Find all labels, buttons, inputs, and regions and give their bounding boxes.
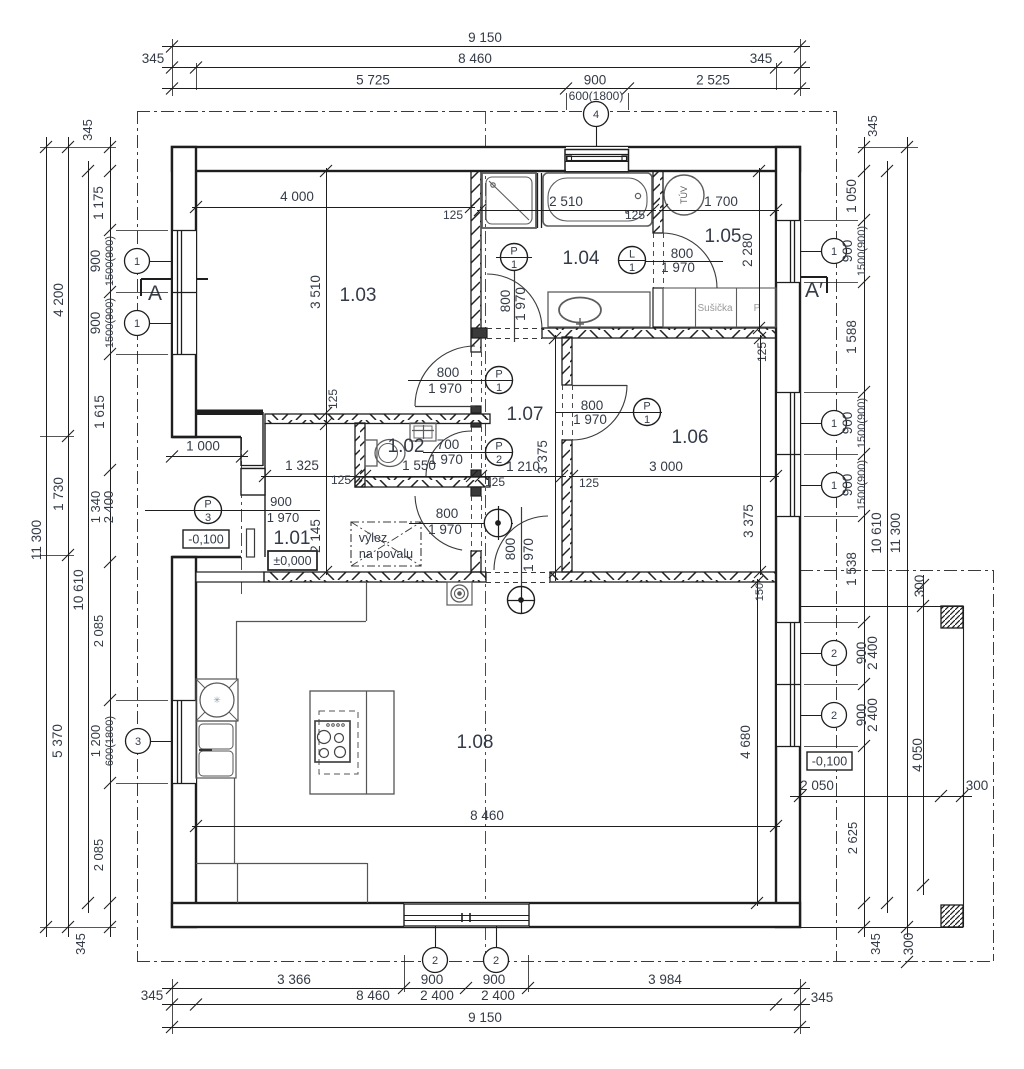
svg-text:2 400: 2 400 <box>101 491 116 524</box>
svg-text:1.04: 1.04 <box>563 248 600 269</box>
svg-text:1 615: 1 615 <box>92 395 107 429</box>
svg-text:P: P <box>495 369 502 381</box>
svg-text:2: 2 <box>493 955 499 967</box>
svg-text:125: 125 <box>755 342 769 362</box>
svg-text:10 610: 10 610 <box>71 569 86 610</box>
svg-text:2 525: 2 525 <box>696 73 730 88</box>
svg-text:1: 1 <box>831 418 837 430</box>
svg-text:345: 345 <box>141 988 164 1003</box>
svg-text:1 588: 1 588 <box>844 320 859 354</box>
svg-text:1: 1 <box>644 414 650 426</box>
svg-text:3 984: 3 984 <box>648 972 682 987</box>
svg-text:1 970: 1 970 <box>428 381 462 396</box>
svg-text:1.05: 1.05 <box>705 226 742 247</box>
svg-text:11 300: 11 300 <box>888 513 903 553</box>
svg-text:2 510: 2 510 <box>549 194 583 209</box>
svg-text:9 150: 9 150 <box>468 1010 502 1025</box>
svg-text:150: 150 <box>754 583 766 601</box>
svg-text:P: P <box>204 499 211 511</box>
svg-text:800: 800 <box>498 290 513 313</box>
svg-text:8 460: 8 460 <box>458 51 492 66</box>
svg-text:125: 125 <box>443 208 463 222</box>
svg-text:L: L <box>629 249 635 261</box>
svg-text:TÚV: TÚV <box>679 186 689 204</box>
svg-text:800: 800 <box>581 398 604 413</box>
svg-text:3: 3 <box>205 512 211 524</box>
svg-text:4 200: 4 200 <box>51 283 66 317</box>
svg-text:1: 1 <box>831 246 837 258</box>
svg-text:125: 125 <box>326 389 340 409</box>
svg-text:900: 900 <box>483 972 506 987</box>
svg-text:1 730: 1 730 <box>51 477 66 511</box>
svg-text:Sušička: Sušička <box>697 303 732 314</box>
svg-text:1500(900): 1500(900) <box>104 298 116 348</box>
svg-text:1500(900): 1500(900) <box>856 398 868 448</box>
svg-text:900: 900 <box>270 494 292 509</box>
svg-text:345: 345 <box>80 119 95 141</box>
svg-text:125: 125 <box>579 476 599 490</box>
svg-text:3 366: 3 366 <box>277 972 311 987</box>
svg-text:1.03: 1.03 <box>340 285 377 306</box>
svg-text:1.06: 1.06 <box>672 427 709 448</box>
svg-text:1500(900): 1500(900) <box>856 460 868 510</box>
svg-text:1: 1 <box>134 318 140 330</box>
svg-text:345: 345 <box>811 990 834 1005</box>
svg-text:1.02: 1.02 <box>388 436 425 457</box>
svg-text:300: 300 <box>966 778 989 793</box>
svg-text:2 400: 2 400 <box>481 988 515 1003</box>
svg-text:10 610: 10 610 <box>869 512 884 553</box>
svg-text:2 085: 2 085 <box>91 615 106 648</box>
svg-text:2 085: 2 085 <box>91 839 106 872</box>
svg-text:P: P <box>510 246 517 258</box>
svg-text:✳: ✳ <box>213 695 221 705</box>
svg-text:300: 300 <box>912 575 927 598</box>
svg-text:2: 2 <box>831 710 837 722</box>
svg-text:-0,100: -0,100 <box>812 755 847 769</box>
svg-text:2 145: 2 145 <box>308 519 323 553</box>
svg-text:1 050: 1 050 <box>844 179 859 213</box>
svg-text:výlez: výlez <box>359 531 387 545</box>
svg-text:1 970: 1 970 <box>573 412 607 427</box>
svg-text:4 050: 4 050 <box>910 738 925 772</box>
svg-text:±0,000: ±0,000 <box>273 554 311 568</box>
svg-text:1 000: 1 000 <box>186 439 220 454</box>
svg-text:1: 1 <box>496 382 502 394</box>
svg-text:900: 900 <box>88 312 103 335</box>
svg-text:1 700: 1 700 <box>704 194 738 209</box>
svg-text:700: 700 <box>437 437 460 452</box>
svg-text:345: 345 <box>142 51 165 66</box>
svg-text:1 325: 1 325 <box>285 458 319 473</box>
svg-text:11 300: 11 300 <box>29 520 44 560</box>
svg-text:1 970: 1 970 <box>513 287 528 321</box>
svg-text:800: 800 <box>671 246 694 261</box>
svg-text:1 970: 1 970 <box>428 522 462 537</box>
svg-text:1500(900): 1500(900) <box>104 236 116 286</box>
svg-text:600(1800): 600(1800) <box>104 716 116 766</box>
svg-text:1 970: 1 970 <box>267 510 300 525</box>
svg-text:345: 345 <box>73 933 88 955</box>
svg-text:800: 800 <box>437 365 460 380</box>
svg-text:345: 345 <box>865 115 880 137</box>
svg-text:na povalu: na povalu <box>359 547 413 561</box>
svg-text:2: 2 <box>831 648 837 660</box>
svg-text:1 175: 1 175 <box>91 186 106 220</box>
svg-text:2 400: 2 400 <box>420 988 454 1003</box>
svg-text:900: 900 <box>840 474 855 497</box>
svg-text:2 400: 2 400 <box>865 636 880 670</box>
svg-text:3 510: 3 510 <box>308 275 323 309</box>
svg-text:800: 800 <box>503 538 518 561</box>
svg-text:4 000: 4 000 <box>280 189 314 204</box>
svg-text:800: 800 <box>436 506 459 521</box>
svg-text:A: A <box>148 282 162 305</box>
svg-text:125: 125 <box>625 208 645 222</box>
svg-text:2: 2 <box>432 955 438 967</box>
svg-text:1500(900): 1500(900) <box>856 226 868 276</box>
svg-text:125: 125 <box>331 473 351 487</box>
svg-text:900: 900 <box>421 972 444 987</box>
svg-text:4 680: 4 680 <box>738 725 753 759</box>
svg-text:8 460: 8 460 <box>356 988 390 1003</box>
svg-text:1 210: 1 210 <box>506 459 540 474</box>
svg-text:8 460: 8 460 <box>470 808 504 823</box>
svg-text:1.01: 1.01 <box>274 528 311 549</box>
svg-text:900: 900 <box>840 412 855 435</box>
svg-text:2 625: 2 625 <box>845 822 860 855</box>
svg-text:345: 345 <box>868 933 883 955</box>
svg-text:2 280: 2 280 <box>740 233 755 267</box>
svg-text:9 150: 9 150 <box>468 30 502 45</box>
svg-text:1 970: 1 970 <box>521 538 536 572</box>
svg-text:125: 125 <box>485 475 505 489</box>
svg-text:1.08: 1.08 <box>457 732 494 753</box>
svg-text:1: 1 <box>629 262 635 274</box>
svg-text:3 000: 3 000 <box>649 459 683 474</box>
svg-text:300: 300 <box>901 933 916 956</box>
svg-text:5 725: 5 725 <box>356 73 390 88</box>
svg-text:3: 3 <box>135 736 141 748</box>
svg-text:3 375: 3 375 <box>741 504 756 538</box>
svg-text:P: P <box>495 441 502 453</box>
svg-text:P: P <box>643 401 650 413</box>
svg-text:1 538: 1 538 <box>844 552 859 586</box>
svg-text:900: 900 <box>584 73 607 88</box>
svg-text:900: 900 <box>840 240 855 263</box>
svg-text:1: 1 <box>831 480 837 492</box>
svg-text:345: 345 <box>750 51 773 66</box>
svg-text:5 370: 5 370 <box>50 724 65 758</box>
svg-text:1 550: 1 550 <box>402 458 436 473</box>
svg-text:1 970: 1 970 <box>661 260 695 275</box>
svg-text:4: 4 <box>593 109 599 121</box>
svg-text:-0,100: -0,100 <box>188 533 223 547</box>
svg-text:2 400: 2 400 <box>865 698 880 732</box>
svg-text:2: 2 <box>496 454 502 466</box>
svg-text:1 200: 1 200 <box>88 725 103 758</box>
svg-text:600(1800): 600(1800) <box>569 89 624 103</box>
svg-text:2 050: 2 050 <box>800 778 834 793</box>
svg-text:1: 1 <box>134 256 140 268</box>
svg-text:1.07: 1.07 <box>507 404 544 425</box>
svg-text:1: 1 <box>511 259 517 271</box>
svg-text:900: 900 <box>88 250 103 273</box>
